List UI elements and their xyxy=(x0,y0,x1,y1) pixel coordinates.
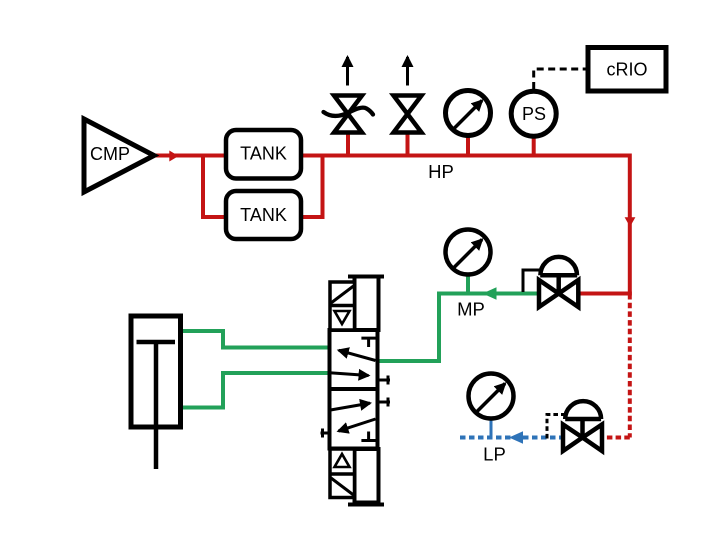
cylinder actuator xyxy=(131,316,181,469)
compressor CMP xyxy=(84,119,154,192)
valve top cell arrow straight xyxy=(330,373,369,376)
valve top solenoid xyxy=(330,282,355,330)
valve bottom cell arrow crossed xyxy=(338,419,375,431)
valve right port stub lower xyxy=(378,398,391,407)
pressure gauge MP xyxy=(446,230,491,275)
directional control valve body xyxy=(330,330,378,449)
flow arrow green left xyxy=(483,287,497,300)
wire: blue LP dashed line xyxy=(460,436,563,440)
valve bottom solenoid xyxy=(330,449,355,498)
flow arrow blue left xyxy=(509,431,523,444)
pressure gauge LP xyxy=(469,374,514,419)
valve bottom cell T-plug xyxy=(361,432,375,441)
pressure regulator MP xyxy=(523,257,578,307)
wire: blue stub LP gauge xyxy=(490,419,493,440)
valve top cap line xyxy=(348,275,384,279)
wire: red HP to MP regulator xyxy=(578,292,632,296)
flow arrow red right xyxy=(169,151,178,162)
valve left port stub xyxy=(321,429,330,438)
wire: green MP line from regulator xyxy=(379,294,539,362)
svg-text:CMP: CMP xyxy=(90,144,130,164)
valve bottom spring triangle xyxy=(335,454,350,467)
signal wire: PS to cRIO dashed xyxy=(534,69,588,89)
valve top cell arrow crossed xyxy=(339,350,376,360)
wire: green cylinder bottom port xyxy=(180,373,329,408)
vent valve V1 with flow-control curve xyxy=(324,57,374,133)
wire: red dashed HP to LP regulator xyxy=(602,294,630,438)
pressure regulator LP xyxy=(547,401,602,451)
wire: green stub MP gauge xyxy=(466,275,470,294)
flow arrow red down xyxy=(625,217,636,227)
valve right port stub upper xyxy=(378,376,391,385)
svg-text:PS: PS xyxy=(522,104,546,124)
svg-text:LP: LP xyxy=(483,444,506,465)
valve bottom cap line xyxy=(348,503,384,507)
svg-text:MP: MP xyxy=(457,299,485,320)
wire: red output compressor to TANK xyxy=(154,154,226,158)
svg-text:cRIO: cRIO xyxy=(606,60,647,80)
wire: red TANK2 output up to HP line xyxy=(301,156,323,218)
svg-text:TANK: TANK xyxy=(240,144,287,164)
wire: red branch down to TANK2 xyxy=(203,156,226,218)
vent valve V2 xyxy=(394,57,422,133)
svg-text:HP: HP xyxy=(428,161,454,182)
valve bottom cell arrow straight xyxy=(331,403,371,410)
valve top spring triangle xyxy=(335,311,350,324)
valve top cell T-plug xyxy=(361,338,375,347)
wire: red stub HP gauge xyxy=(466,136,470,156)
wire: red HP main line and right drop xyxy=(301,156,630,295)
wire: red stub PS xyxy=(532,137,536,156)
pressure switch PS xyxy=(511,91,556,136)
svg-text:TANK: TANK xyxy=(240,205,287,225)
valve top pilot box xyxy=(355,277,379,331)
valve bottom pilot box xyxy=(355,449,379,503)
pressure gauge HP xyxy=(446,91,491,136)
wire: red stub valve V2 xyxy=(406,130,410,156)
wire: red stub valve V1 xyxy=(346,130,350,156)
wire: green cylinder top port xyxy=(180,331,329,348)
tank T2 xyxy=(226,191,301,239)
tank T1 xyxy=(226,130,301,179)
controller cRIO xyxy=(588,48,666,92)
